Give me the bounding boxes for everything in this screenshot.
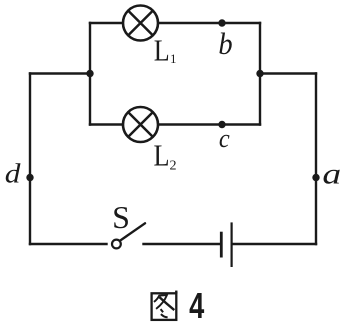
- svg-text:a: a: [322, 158, 341, 190]
- lamp L2: [123, 107, 177, 174]
- wire bottom left segment: [30, 243, 107, 245]
- wire left feed: [30, 72, 90, 74]
- node d: [5, 159, 34, 189]
- node c: [218, 121, 229, 153]
- wire battery to right: [232, 243, 316, 245]
- svg-text:d: d: [5, 159, 21, 189]
- svg-text:b: b: [218, 27, 232, 61]
- wire right parallel vertical: [259, 23, 261, 125]
- svg-text:4: 4: [189, 285, 204, 323]
- svg-text:c: c: [219, 125, 230, 153]
- wire right outer vertical: [315, 74, 317, 245]
- svg-text:L: L: [154, 35, 170, 68]
- wire top branch: [90, 22, 260, 24]
- switch S: [112, 199, 145, 248]
- wire middle branch: [90, 123, 260, 125]
- caption 4: [189, 285, 204, 323]
- wire switch to battery: [144, 243, 221, 245]
- node a: [312, 158, 341, 190]
- battery: [221, 222, 231, 267]
- lamp L1: [123, 6, 176, 68]
- svg-text:L: L: [154, 140, 170, 173]
- svg-text:S: S: [112, 199, 130, 235]
- caption 图: [152, 291, 177, 320]
- svg-text:2: 2: [170, 158, 177, 174]
- node b: [218, 19, 232, 61]
- wire left parallel vertical: [89, 23, 91, 125]
- wire left outer vertical: [29, 74, 31, 245]
- junction right: [256, 70, 263, 77]
- junction left: [86, 70, 93, 77]
- svg-text:1: 1: [170, 52, 176, 66]
- wire right feed: [260, 72, 316, 74]
